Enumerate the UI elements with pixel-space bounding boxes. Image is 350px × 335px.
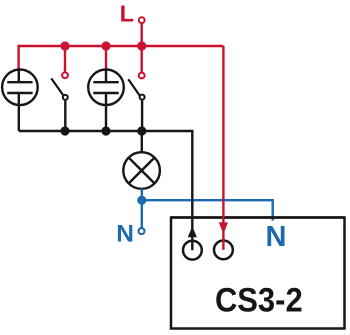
wire Nbus corner to CS3-2 terminal [191,130,193,250]
wire lamp E3 to N node (blue) [141,189,143,201]
wire E2 to N bus [105,105,107,132]
terminal L [139,17,145,23]
wire L feed [140,24,142,46]
wire black N-side bus [19,130,193,132]
arrow up (black) [188,226,197,237]
wire N to CS3-2 (blue) [142,200,273,220]
terminal CS3-2 L input (right) [214,241,233,260]
wire bus to glow lamp E2 [105,46,107,70]
node junction Nbus/lamp [137,126,146,135]
wire bus to push button S2 [140,46,142,72]
terminal push button S1 [62,72,68,78]
svg-text:CS3-2: CS3-2 [215,280,303,319]
node junction Nbus/E2 [101,126,110,135]
wire red bus to CS3-2 terminal [222,46,224,250]
node junction N [137,196,146,205]
arrow down (red) [219,222,228,234]
terminal N [139,228,145,234]
push button S2 [128,79,144,99]
wire S2 to N bus [141,100,143,131]
wire E1 to N bus [18,105,20,132]
wire bus to push button S1 [64,46,66,72]
wire bus to glow lamp E1 [17,45,19,70]
svg-text:N: N [116,220,134,247]
terminal CS3-2 input (left) [183,241,202,260]
wire S1 to N bus [64,101,66,131]
node junction bus/S1 [60,41,69,50]
lamp E3 [123,152,160,189]
push button S1 [51,78,68,100]
node junction Nbus/S1 [60,126,69,135]
node junction bus/E2 [101,41,110,50]
svg-text:N: N [266,221,287,253]
wire Nbus to lamp E3 [141,131,143,153]
device box CS3-2 [171,218,345,329]
glow lamp E2 [88,69,124,106]
svg-text:L: L [120,1,134,27]
glow lamp E1 [2,69,38,106]
terminal push button S2 [139,73,145,79]
wire red L bus [19,45,224,47]
device box top edge (drawn over blue wire) [171,216,345,219]
node junction bus/L [137,41,146,50]
wire N node to N terminal (blue) [141,200,143,227]
